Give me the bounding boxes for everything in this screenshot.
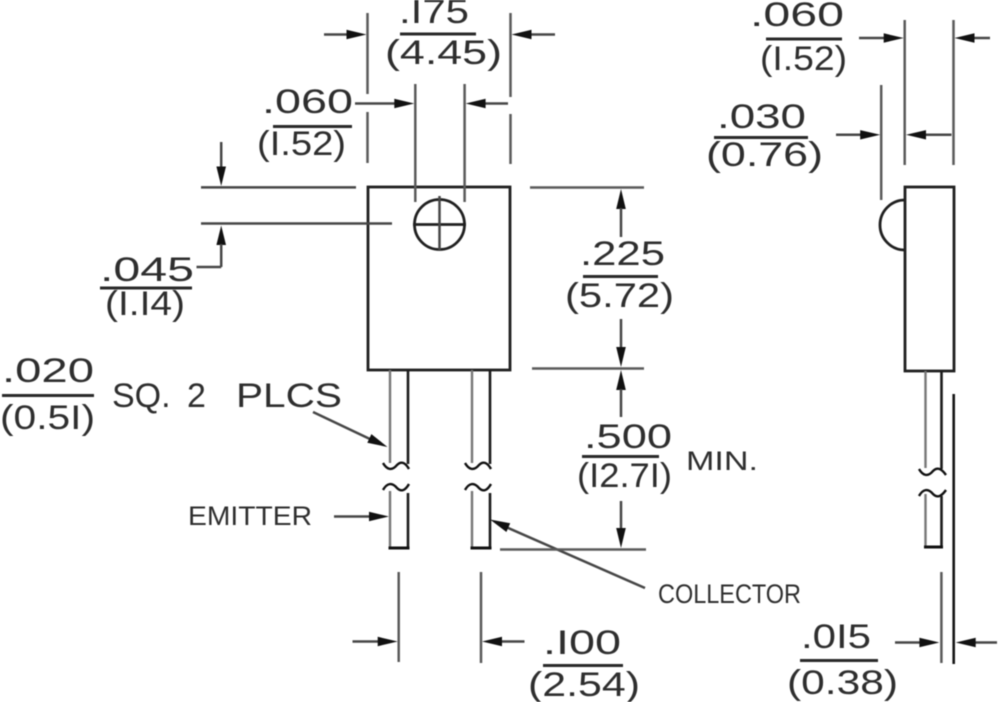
svg-text:.060: .060 — [750, 0, 844, 34]
EMITTER label and arrow — [188, 501, 389, 531]
svg-text:(I.52): (I.52) — [760, 40, 847, 78]
svg-text:(I2.7I): (I2.7I) — [577, 457, 672, 495]
svg-text:MIN.: MIN. — [686, 446, 758, 476]
dimension .045 (1.14) hole center from top — [100, 142, 392, 323]
svg-text:(0.76): (0.76) — [706, 136, 823, 174]
dimension .225 (5.72) body height — [530, 188, 674, 369]
side lead lower break squiggle — [919, 490, 946, 496]
svg-text:.030: .030 — [717, 98, 806, 136]
dimension .100 (2.54) lead spacing — [353, 572, 641, 702]
dimension .175 (4.45) body width — [324, 0, 555, 164]
dimension .060 (1.52) side body thickness — [750, 0, 990, 165]
svg-text:.0I5: .0I5 — [801, 618, 871, 656]
svg-text:(0.5I): (0.5I) — [0, 399, 95, 437]
svg-text:(I.52): (I.52) — [257, 125, 346, 163]
side lead upper segment — [926, 371, 942, 469]
emitter lead lower segment — [389, 491, 410, 548]
dimension .060 (1.52) hole diameter — [257, 83, 508, 202]
emitter lead lower break squiggle — [383, 484, 409, 490]
emitter lead upper segment — [390, 370, 408, 464]
collector lead lower break squiggle — [465, 484, 491, 490]
svg-text:.060: .060 — [262, 83, 353, 121]
svg-text:2: 2 — [187, 377, 206, 415]
front view body outline — [368, 187, 510, 370]
svg-text:(5.72): (5.72) — [565, 277, 674, 315]
svg-text:(I.I4): (I.I4) — [105, 285, 185, 323]
hole crosshair horizontal — [413, 223, 466, 226]
svg-text:.500: .500 — [584, 418, 672, 456]
side view body outline — [905, 187, 954, 371]
svg-text:.045: .045 — [100, 251, 194, 289]
COLLECTOR label and leader — [490, 520, 801, 610]
svg-text:SQ.: SQ. — [112, 377, 171, 415]
collector lead upper segment — [472, 370, 490, 464]
svg-text:.225: .225 — [580, 235, 665, 273]
svg-text:COLLECTOR: COLLECTOR — [658, 579, 801, 609]
svg-text:(0.38): (0.38) — [787, 664, 898, 702]
dimension .030 (0.76) boss height — [706, 85, 952, 200]
svg-text:.I00: .I00 — [543, 624, 621, 662]
collector lead upper break squiggle — [465, 463, 491, 469]
dimension .500 (12.71) MIN lead length — [500, 370, 758, 550]
side lead upper break squiggle — [919, 469, 946, 475]
svg-text:(2.54): (2.54) — [528, 666, 640, 702]
side view boss bump arc — [880, 200, 905, 250]
side lead lower segment — [924, 494, 943, 547]
svg-text:EMITTER: EMITTER — [188, 501, 312, 531]
svg-text:(4.45): (4.45) — [385, 34, 502, 72]
svg-text:.I75: .I75 — [399, 0, 469, 31]
hole crosshair vertical — [438, 196, 441, 250]
collector lead lower segment — [471, 491, 492, 548]
dimension .020 (0.51) SQ. 2 PLCS lead size — [0, 352, 388, 447]
mounting hole circle — [415, 200, 465, 250]
svg-text:.020: .020 — [2, 352, 94, 390]
svg-text:PLCS: PLCS — [236, 377, 342, 415]
dimension .015 (0.38) lead offset — [787, 394, 997, 702]
emitter lead upper break squiggle — [383, 463, 409, 469]
